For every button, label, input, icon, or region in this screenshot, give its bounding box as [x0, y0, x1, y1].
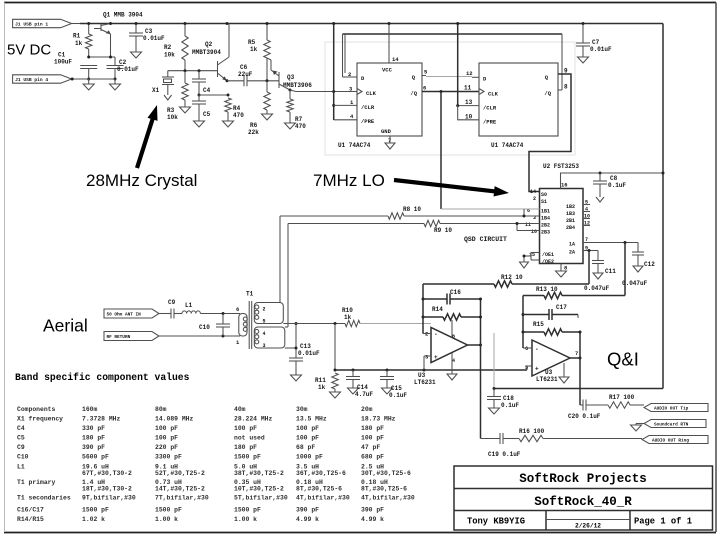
svg-text:C4: C4	[203, 87, 211, 94]
svg-text:T1 secondaries: T1 secondaries	[17, 495, 71, 502]
svg-text:C18: C18	[503, 395, 514, 402]
svg-text:38T,#30,T25-2: 38T,#30,T25-2	[234, 470, 284, 477]
svg-text:28.224 MHz: 28.224 MHz	[234, 416, 273, 423]
svg-text:4: 4	[263, 331, 266, 337]
svg-text:T1: T1	[246, 291, 254, 298]
svg-text:SoftRock_40_R: SoftRock_40_R	[534, 495, 632, 509]
svg-text:100 pF: 100 pF	[155, 435, 178, 442]
svg-text:1k: 1k	[318, 384, 326, 391]
svg-text:10: 10	[531, 229, 537, 235]
svg-text:0.1uF: 0.1uF	[389, 392, 407, 399]
svg-text:-: -	[535, 346, 539, 353]
svg-text:180 pF: 180 pF	[361, 425, 384, 432]
svg-text:RF RETURN: RF RETURN	[107, 335, 131, 340]
svg-text:4.7uF: 4.7uF	[355, 391, 373, 398]
svg-text:1.00 k: 1.00 k	[155, 516, 178, 523]
svg-text:Tony KB9YIG: Tony KB9YIG	[467, 517, 525, 527]
svg-text:180 pF: 180 pF	[234, 444, 257, 451]
svg-text:390 pF: 390 pF	[361, 507, 384, 514]
svg-text:68 pF: 68 pF	[296, 444, 315, 451]
svg-text:Aerial: Aerial	[43, 316, 88, 336]
svg-text:0.01uF: 0.01uF	[298, 350, 320, 357]
svg-text:1B3: 1B3	[566, 211, 575, 217]
svg-text:C11: C11	[605, 268, 616, 275]
svg-text:100 pF: 100 pF	[361, 435, 384, 442]
svg-text:100 pF: 100 pF	[296, 435, 319, 442]
svg-text:GND: GND	[381, 128, 392, 135]
svg-text:7.3728 MHz: 7.3728 MHz	[82, 416, 121, 423]
svg-text:/OE2: /OE2	[542, 259, 554, 265]
svg-text:SoftRock Projects: SoftRock Projects	[519, 472, 647, 486]
svg-text:11: 11	[525, 222, 531, 228]
svg-text:R2: R2	[164, 44, 172, 51]
svg-text:12: 12	[466, 70, 473, 77]
svg-text:22uF: 22uF	[238, 71, 253, 78]
svg-text:50 Ohm ANT IN: 50 Ohm ANT IN	[107, 313, 142, 318]
svg-text:1500 pF: 1500 pF	[234, 454, 261, 461]
svg-text:Band specific component values: Band specific component values	[15, 372, 190, 383]
svg-text:1B2: 1B2	[566, 204, 575, 210]
svg-text:/CLR: /CLR	[361, 104, 375, 111]
svg-text:1000 pF: 1000 pF	[296, 454, 323, 461]
svg-text:R12 10: R12 10	[501, 274, 523, 281]
svg-text:2B1: 2B1	[566, 218, 575, 224]
svg-text:S0: S0	[541, 192, 547, 198]
svg-text:47 pF: 47 pF	[361, 444, 380, 451]
svg-text:14: 14	[530, 189, 536, 195]
svg-text:LT6231: LT6231	[536, 376, 558, 383]
svg-text:Q&I: Q&I	[607, 349, 639, 370]
svg-text:Q1 MMB 3904: Q1 MMB 3904	[103, 12, 143, 19]
svg-text:U1 74AC74: U1 74AC74	[491, 142, 524, 149]
svg-text:CLK: CLK	[366, 90, 377, 97]
svg-text:C13: C13	[300, 343, 311, 350]
svg-text:8: 8	[564, 84, 568, 91]
svg-text:C14: C14	[357, 384, 368, 391]
svg-text:R11: R11	[315, 377, 326, 384]
svg-text:14T,#30,T25-2: 14T,#30,T25-2	[155, 486, 205, 493]
svg-text:/CLR: /CLR	[483, 105, 497, 112]
svg-text:2B2: 2B2	[541, 223, 550, 229]
svg-text:0.01uF: 0.01uF	[117, 66, 139, 73]
svg-text:1500 pF: 1500 pF	[234, 507, 261, 514]
svg-text:U1 74AC74: U1 74AC74	[338, 142, 371, 149]
svg-text:/Q: /Q	[544, 90, 551, 97]
svg-text:AUDIO OUT Tip: AUDIO OUT Tip	[654, 407, 689, 412]
svg-text:4T,bifilar,#30: 4T,bifilar,#30	[296, 495, 350, 502]
svg-text:1B4: 1B4	[541, 216, 550, 222]
svg-text:36T,#30,T25-6: 36T,#30,T25-6	[296, 470, 346, 477]
svg-text:+: +	[434, 354, 438, 361]
svg-text:QSD CIRCUIT: QSD CIRCUIT	[464, 236, 507, 243]
svg-text:330 pF: 330 pF	[82, 425, 105, 432]
svg-text:16: 16	[561, 182, 568, 189]
svg-text:X1 frequency: X1 frequency	[17, 416, 63, 423]
svg-text:+: +	[535, 366, 539, 373]
svg-text:Q3: Q3	[287, 74, 295, 81]
svg-text:R7: R7	[295, 116, 303, 123]
svg-text:100 pF: 100 pF	[296, 425, 319, 432]
svg-text:C7: C7	[592, 39, 600, 46]
svg-text:100 pF: 100 pF	[234, 425, 257, 432]
svg-text:Components: Components	[17, 406, 56, 413]
svg-text:2B3: 2B3	[541, 230, 550, 236]
svg-text:100 pF: 100 pF	[155, 425, 178, 432]
svg-text:C5: C5	[17, 435, 25, 442]
svg-text:R16 100: R16 100	[519, 428, 545, 435]
svg-text:3300 pF: 3300 pF	[155, 454, 182, 461]
svg-text:C8: C8	[610, 175, 618, 182]
svg-text:R17 100: R17 100	[609, 394, 635, 401]
svg-text:13: 13	[465, 99, 473, 106]
svg-text:8T,#30,T25-6: 8T,#30,T25-6	[296, 486, 342, 493]
svg-text:14: 14	[392, 56, 399, 63]
svg-text:C16: C16	[450, 289, 461, 296]
svg-text:1k: 1k	[344, 314, 352, 321]
svg-text:11: 11	[464, 85, 472, 92]
svg-text:0.1uF: 0.1uF	[501, 402, 519, 409]
svg-text:not used: not used	[234, 435, 265, 442]
svg-text:2: 2	[263, 307, 266, 313]
svg-text:1k: 1k	[75, 40, 83, 47]
svg-text:30T,#30,T25-6: 30T,#30,T25-6	[361, 470, 411, 477]
svg-text:390 pF: 390 pF	[296, 507, 319, 514]
svg-text:C10: C10	[17, 454, 29, 461]
svg-text:C4: C4	[17, 425, 25, 432]
svg-text:L1: L1	[17, 464, 25, 471]
svg-text:470: 470	[233, 112, 244, 119]
svg-text:2B4: 2B4	[566, 225, 575, 231]
svg-text:C1: C1	[58, 52, 66, 59]
svg-text:AUDIO OUT Ring: AUDIO OUT Ring	[652, 439, 689, 444]
svg-text:160m: 160m	[82, 406, 98, 413]
svg-text:7MHz LO: 7MHz LO	[313, 171, 385, 190]
svg-text:R15: R15	[533, 321, 544, 328]
svg-text:6: 6	[236, 306, 239, 313]
svg-text:C5: C5	[203, 111, 211, 118]
svg-text:5V DC: 5V DC	[7, 42, 51, 59]
svg-text:R6: R6	[250, 122, 258, 129]
svg-text:C3: C3	[145, 28, 153, 35]
svg-text:1k: 1k	[250, 46, 258, 53]
svg-text:Page 1 of 1: Page 1 of 1	[634, 517, 692, 527]
svg-text:5: 5	[263, 319, 266, 325]
svg-text:18T,#30,T30-2: 18T,#30,T30-2	[82, 486, 132, 493]
svg-text:80m: 80m	[155, 406, 167, 413]
svg-text:7: 7	[575, 350, 578, 357]
svg-text:C6: C6	[240, 64, 248, 71]
svg-text:4.99 k: 4.99 k	[361, 516, 384, 523]
svg-text:R13 10: R13 10	[536, 286, 558, 293]
svg-text:C17: C17	[556, 304, 567, 311]
svg-text:R8 10: R8 10	[403, 206, 421, 213]
svg-text:C19 0.1uF: C19 0.1uF	[488, 451, 521, 458]
svg-text:R14/R15: R14/R15	[17, 516, 44, 523]
svg-text:18.73 MHz: 18.73 MHz	[361, 416, 396, 423]
svg-text:2: 2	[533, 196, 536, 202]
svg-text:390 pF: 390 pF	[82, 444, 105, 451]
svg-text:1500 pF: 1500 pF	[82, 507, 109, 514]
svg-text:Soundcard RTN: Soundcard RTN	[654, 423, 689, 428]
svg-text:/OE1: /OE1	[542, 252, 554, 258]
svg-text:1.00 k: 1.00 k	[234, 516, 257, 523]
svg-text:6: 6	[423, 85, 426, 92]
svg-text:C9: C9	[17, 444, 25, 451]
svg-text:R9 10: R9 10	[434, 227, 452, 234]
svg-text:30m: 30m	[296, 406, 308, 413]
svg-text:14.089 MHz: 14.089 MHz	[155, 416, 194, 423]
svg-text:J1 USB pin 4: J1 USB pin 4	[15, 77, 48, 83]
svg-text:0.047uF: 0.047uF	[584, 285, 610, 292]
svg-text:680 pF: 680 pF	[361, 454, 384, 461]
svg-text:20m: 20m	[361, 406, 373, 413]
svg-text:U3: U3	[545, 369, 553, 376]
svg-text:28MHz Crystal: 28MHz Crystal	[86, 171, 197, 190]
svg-text:4T,bifilar,#30: 4T,bifilar,#30	[361, 495, 415, 502]
svg-text:MMBT3904: MMBT3904	[192, 49, 221, 56]
svg-text:C12: C12	[644, 261, 655, 268]
svg-text:2/26/12: 2/26/12	[575, 523, 601, 530]
svg-text:/Q: /Q	[410, 90, 417, 97]
svg-text:10k: 10k	[164, 52, 175, 59]
svg-text:R1: R1	[73, 33, 81, 40]
svg-text:X1: X1	[152, 87, 160, 94]
svg-text:J1 USB pin 1: J1 USB pin 1	[15, 22, 48, 28]
svg-text:5T,bifilar,#30: 5T,bifilar,#30	[234, 495, 288, 502]
svg-text:67T,#30,T30-2: 67T,#30,T30-2	[82, 470, 132, 477]
svg-text:9T,bifilar,#30: 9T,bifilar,#30	[82, 495, 136, 502]
svg-text:R4: R4	[233, 105, 241, 112]
svg-text:Q2: Q2	[205, 41, 213, 48]
svg-text:/PRE: /PRE	[361, 118, 375, 125]
svg-text:1500 pF: 1500 pF	[155, 507, 182, 514]
svg-text:10T,#30,T25-2: 10T,#30,T25-2	[234, 486, 284, 493]
svg-text:7T,bifilar,#30: 7T,bifilar,#30	[155, 495, 209, 502]
svg-text:22k: 22k	[248, 129, 259, 136]
svg-text:T1 primary: T1 primary	[17, 479, 56, 486]
svg-text:MMBT3906: MMBT3906	[283, 82, 312, 89]
svg-text:CLK: CLK	[488, 91, 499, 98]
svg-text:R3: R3	[167, 107, 175, 114]
svg-text:1A: 1A	[569, 242, 575, 248]
svg-text:1.02 k: 1.02 k	[82, 516, 105, 523]
svg-text:40m: 40m	[234, 406, 246, 413]
svg-text:0.01uF: 0.01uF	[590, 46, 612, 53]
svg-text:8T,#30,T25-6: 8T,#30,T25-6	[361, 486, 407, 493]
svg-text:5600 pF: 5600 pF	[82, 454, 109, 461]
svg-text:52T,#30,T25-2: 52T,#30,T25-2	[155, 470, 205, 477]
svg-text:U2 FST3253: U2 FST3253	[543, 163, 579, 170]
svg-text:13.5 MHz: 13.5 MHz	[296, 416, 327, 423]
svg-text:R5: R5	[248, 39, 256, 46]
svg-text:2A: 2A	[569, 250, 575, 256]
svg-text:L1: L1	[185, 302, 193, 309]
svg-text:C15: C15	[391, 385, 402, 392]
svg-text:4.99 k: 4.99 k	[296, 516, 319, 523]
svg-text:100uF: 100uF	[54, 59, 72, 66]
svg-text:R14: R14	[432, 306, 443, 313]
svg-text:0.047uF: 0.047uF	[622, 280, 648, 287]
svg-text:220 pF: 220 pF	[155, 444, 178, 451]
svg-text:C10: C10	[199, 324, 210, 331]
svg-text:C2: C2	[119, 59, 127, 66]
svg-text:0.01uF: 0.01uF	[143, 35, 165, 42]
svg-text:C16/C17: C16/C17	[17, 507, 44, 514]
svg-text:U3: U3	[418, 372, 426, 379]
svg-text:R10: R10	[342, 307, 353, 314]
svg-text:/PRE: /PRE	[483, 119, 497, 126]
svg-text:3: 3	[263, 343, 266, 349]
svg-text:180 pF: 180 pF	[82, 435, 105, 442]
svg-text:1B1: 1B1	[541, 209, 550, 215]
svg-text:470: 470	[295, 123, 306, 130]
svg-text:LT6231: LT6231	[414, 379, 436, 386]
svg-text:10k: 10k	[167, 114, 178, 121]
svg-text:-: -	[434, 331, 438, 338]
svg-text:S1: S1	[541, 199, 547, 205]
svg-text:C20 0.1uF: C20 0.1uF	[568, 413, 601, 420]
svg-text:0.1uF: 0.1uF	[608, 182, 626, 189]
svg-text:C9: C9	[168, 299, 176, 306]
svg-text:VCC: VCC	[382, 67, 393, 74]
